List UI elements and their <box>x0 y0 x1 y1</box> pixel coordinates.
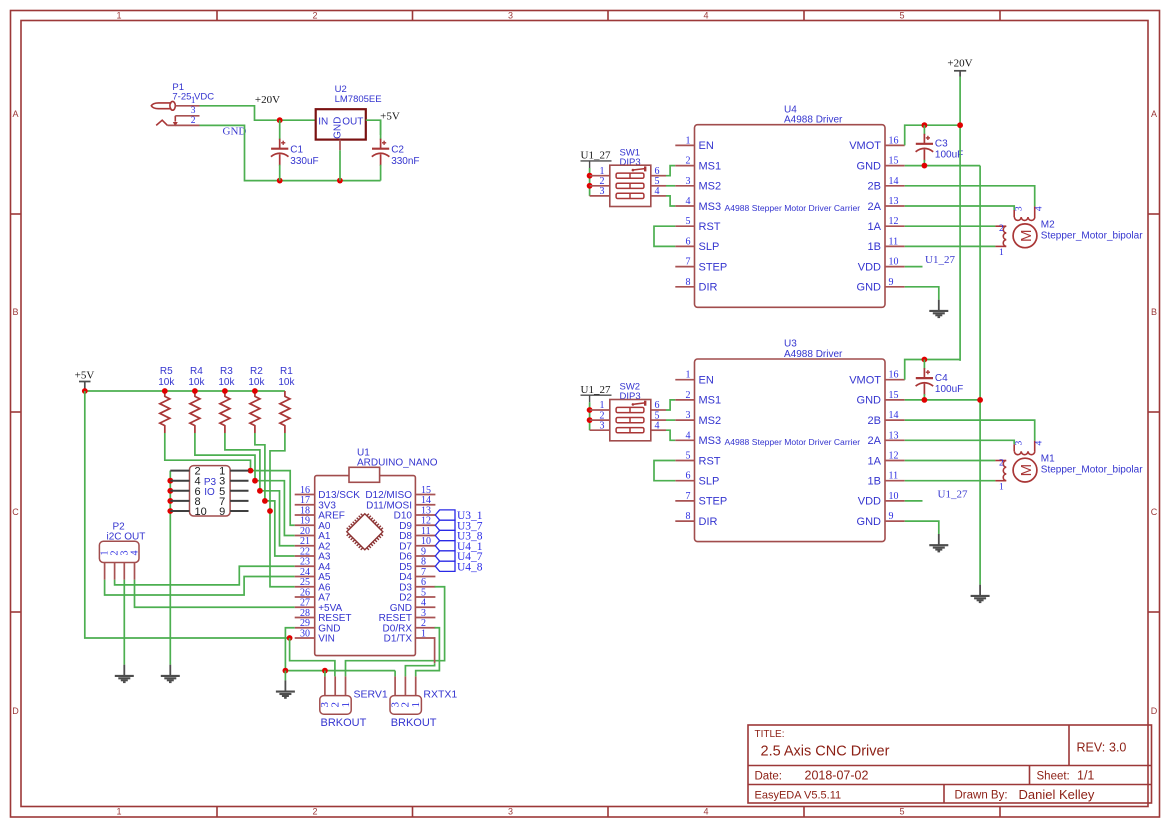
wire U1_27 to SW2 pins <box>589 402 591 430</box>
svg-text:R3: R3 <box>220 366 233 377</box>
svg-text:10k: 10k <box>188 377 205 388</box>
switch SW1 pin numbers <box>600 166 660 197</box>
svg-text:R4: R4 <box>190 366 203 377</box>
IC U3 labels <box>784 339 843 360</box>
wire SW1 pin6 to MS1 <box>666 166 675 176</box>
svg-text:3: 3 <box>600 186 605 197</box>
svg-text:U1_27: U1_27 <box>581 150 611 162</box>
motor M1 body circle <box>1013 458 1037 482</box>
connector P1 barrel jack symbol <box>151 101 175 125</box>
svg-text:GND: GND <box>857 282 882 294</box>
svg-text:OUT: OUT <box>342 116 363 127</box>
junction P3 pin8 <box>167 498 173 504</box>
svg-text:2: 2 <box>999 458 1004 468</box>
wire RXTX1 pin3 drop <box>394 671 396 677</box>
resistor R2 <box>250 391 260 433</box>
resistor R4 labels <box>188 366 205 388</box>
resistor R3 labels <box>218 366 235 388</box>
connector P1 labels <box>172 82 214 103</box>
svg-text:10: 10 <box>195 506 207 518</box>
connector RXTX1 BRKOUT label <box>391 717 437 729</box>
junction P3 pin6 <box>167 488 173 494</box>
IC U1 left pin names <box>318 490 360 644</box>
switch SW1 DIP3 box <box>610 165 651 206</box>
IC U3 left pin stubs <box>675 380 694 521</box>
svg-text:9: 9 <box>889 277 894 288</box>
wire P2 pin4 to +5VA <box>135 580 295 607</box>
svg-text:3: 3 <box>191 106 196 116</box>
ground at U3 GND9 <box>929 534 948 551</box>
junction GND15 at U3 <box>977 397 983 403</box>
wire SW2 pin4 to MS3 <box>666 430 675 440</box>
svg-text:1: 1 <box>686 370 691 381</box>
capacitor C1 labels <box>290 145 318 168</box>
svg-text:A4988 Stepper Motor Driver Car: A4988 Stepper Motor Driver Carrier <box>724 437 860 447</box>
svg-text:1B: 1B <box>868 476 881 488</box>
IC U4 left pin stubs <box>675 145 694 286</box>
svg-text:4: 4 <box>130 551 141 556</box>
svg-text:4: 4 <box>703 807 708 817</box>
svg-text:C: C <box>1151 507 1158 517</box>
ground below U1 <box>276 680 295 697</box>
wire GND15 vertical to bottom ground <box>979 166 981 585</box>
wire +5V down to VIN <box>85 391 290 638</box>
junction P3 pin1 <box>248 468 254 474</box>
wire U3 GND15 <box>905 399 980 401</box>
switch SW1 pin stubs left <box>590 176 610 196</box>
connector P2 pin numbers <box>100 551 141 556</box>
svg-text:4: 4 <box>655 186 660 197</box>
svg-text:MS2: MS2 <box>699 415 722 427</box>
svg-text:5: 5 <box>686 216 691 227</box>
regulator U2 pin names <box>318 116 363 139</box>
svg-text:1: 1 <box>116 807 121 817</box>
svg-text:10k: 10k <box>248 377 265 388</box>
svg-text:11: 11 <box>889 236 899 247</box>
svg-text:30: 30 <box>300 628 310 639</box>
motor M2 left coil <box>995 226 1006 246</box>
wire U2 OUT to C2 (+5V net) <box>366 120 381 135</box>
capacitor C3 labels <box>935 139 963 161</box>
IC U4 right pin stubs <box>885 145 905 286</box>
svg-text:12: 12 <box>889 451 899 462</box>
svg-text:U1_27: U1_27 <box>938 489 968 501</box>
svg-text:GND: GND <box>333 117 344 139</box>
connector P3 box <box>190 466 231 516</box>
svg-text:C4: C4 <box>935 373 948 384</box>
svg-text:1A: 1A <box>868 221 882 233</box>
IC U1 right pin names <box>365 490 412 644</box>
capacitor C3 <box>916 125 934 165</box>
junction SW2 pin1 <box>587 407 593 413</box>
IC U4 A4988 box <box>695 125 886 308</box>
junction P3 pin4 <box>167 478 173 484</box>
junction R2 at +5V rail <box>252 388 258 394</box>
wire U3 GND9 <box>905 521 939 534</box>
svg-text:1A: 1A <box>868 455 882 467</box>
switch SW2 elements <box>616 401 645 433</box>
connector P3 pin numbers <box>195 466 226 518</box>
svg-text:+20V: +20V <box>255 94 280 106</box>
IC U1 left pin stubs <box>295 495 315 639</box>
motor M1 labels <box>1041 454 1143 476</box>
regulator U2 labels <box>335 84 382 105</box>
svg-text:MS3: MS3 <box>699 435 722 447</box>
title block <box>748 725 1152 803</box>
svg-text:D1/TX: D1/TX <box>384 634 413 645</box>
junction C3 bottom <box>922 163 928 169</box>
svg-text:1: 1 <box>421 628 426 639</box>
svg-text:Stepper_Motor_bipolar: Stepper_Motor_bipolar <box>1041 465 1143 476</box>
junction VIN <box>287 635 293 641</box>
frame row letters left <box>12 109 19 716</box>
capacitor C2 <box>372 120 390 180</box>
svg-text:1: 1 <box>191 96 196 106</box>
title block text Drawn By <box>955 787 1095 802</box>
svg-text:1: 1 <box>116 11 121 21</box>
svg-text:GND: GND <box>857 395 882 407</box>
IC U1 left pin numbers <box>300 485 310 640</box>
junction P3 pin7 <box>262 498 268 504</box>
IC U1 labels <box>357 448 438 469</box>
svg-text:U1_27: U1_27 <box>581 384 611 396</box>
IC U3 carrier text <box>724 437 860 447</box>
wire SERV1 pin3 drop <box>324 671 326 677</box>
svg-text:5: 5 <box>686 451 691 462</box>
IC U3 A4988 box <box>695 359 886 542</box>
IC U3 right pin stubs <box>885 380 905 521</box>
wire U3 VDD stub <box>905 500 923 502</box>
svg-text:3: 3 <box>686 176 691 187</box>
svg-text:3.0: 3.0 <box>1109 741 1126 755</box>
svg-text:EN: EN <box>699 375 714 387</box>
junction SW1 pin1 <box>587 173 593 179</box>
wire D1/TX to RXTX1 pin2 <box>434 637 436 663</box>
junction at C1 top <box>277 117 283 123</box>
svg-text:11: 11 <box>889 471 899 482</box>
svg-text:16: 16 <box>889 135 899 146</box>
frame column numbers bottom <box>116 807 904 817</box>
wire P3 left pins to ground <box>169 471 171 665</box>
svg-text:3: 3 <box>508 807 513 817</box>
ground below P3 <box>161 665 180 682</box>
resistor R4 <box>190 391 200 433</box>
connector RXTX1 pin numbers <box>389 702 422 708</box>
svg-text:U1_27: U1_27 <box>925 254 955 266</box>
wire SW2 pin5 to MS2 <box>666 419 675 421</box>
junction C4 bottom <box>922 397 928 403</box>
svg-text:330nF: 330nF <box>391 156 419 167</box>
svg-text:13: 13 <box>889 430 899 441</box>
svg-text:8: 8 <box>686 511 691 522</box>
connector P1 pin 2 <box>168 116 200 126</box>
wire U4 1B to motor pin1 <box>905 245 996 247</box>
IC U1 ARDUINO_NANO box <box>315 476 416 656</box>
svg-text:7: 7 <box>686 257 691 268</box>
svg-text:100uF: 100uF <box>935 150 963 161</box>
switch SW2 DIP3 box <box>610 400 651 441</box>
IC U4 labels <box>784 104 843 125</box>
svg-text:3: 3 <box>686 410 691 421</box>
svg-text:A4988 Stepper Motor Driver Car: A4988 Stepper Motor Driver Carrier <box>724 203 860 213</box>
svg-text:R1: R1 <box>280 366 293 377</box>
svg-text:C: C <box>12 507 19 517</box>
wire U3 1A to motor pin2 <box>905 460 996 462</box>
wire P2 pin3 to ground <box>123 580 125 665</box>
svg-text:4: 4 <box>686 430 691 441</box>
wire R5 to P3 pin1 to A0 <box>165 433 251 471</box>
svg-text:3: 3 <box>508 11 513 21</box>
wire U3 VMOT riser <box>905 360 960 380</box>
capacitor C2 labels <box>391 145 419 168</box>
wire VIN to SERV1 pin2 <box>290 638 335 676</box>
net label U1_27 at U4 VDD <box>925 254 955 266</box>
junction C4 top <box>922 357 928 363</box>
junction SW1 pin2 <box>587 183 593 189</box>
svg-text:14: 14 <box>889 410 899 421</box>
wire R2 to P3 pin7 to A3 <box>255 433 265 501</box>
IC U1 right pin numbers <box>421 485 431 640</box>
net label GND at P1 <box>223 126 247 138</box>
frame row letters right <box>1151 109 1158 716</box>
svg-text:2: 2 <box>999 224 1004 234</box>
wire SW2 pin6 to MS1 <box>666 400 675 410</box>
svg-text:8: 8 <box>686 277 691 288</box>
motor M2 body circle <box>1013 224 1037 248</box>
svg-text:MS2: MS2 <box>699 181 722 193</box>
capacitor C1 <box>271 120 289 180</box>
connector P3 pin stubs left <box>170 471 189 511</box>
connector SERV1 box <box>320 696 351 715</box>
junction +20V at U4 VMOT <box>957 122 963 128</box>
resistor R5 <box>160 391 170 433</box>
svg-text:GND: GND <box>857 516 882 528</box>
svg-text:U4_8: U4_8 <box>457 561 483 573</box>
wire U4 VDD stub <box>905 266 923 268</box>
svg-text:DIR: DIR <box>699 516 718 528</box>
junction P3 pin3 <box>252 478 258 484</box>
wire U2 GND to rail <box>339 140 341 151</box>
junction U2 GND bottom rail <box>337 178 343 184</box>
motor M1 top coil <box>1014 441 1035 455</box>
IC U4 right pin numbers <box>889 135 899 287</box>
svg-text:R5: R5 <box>160 366 173 377</box>
motor M1 left coil <box>995 461 1006 481</box>
svg-text:+5V: +5V <box>75 370 95 382</box>
svg-text:RST: RST <box>699 221 721 233</box>
svg-text:12: 12 <box>889 216 899 227</box>
svg-text:LM7805EE: LM7805EE <box>335 94 382 105</box>
svg-text:10: 10 <box>889 257 899 268</box>
capacitor C4 <box>916 360 934 400</box>
wire U1 GND29 to ground rail <box>285 628 395 671</box>
svg-text:D: D <box>12 706 19 716</box>
frame column numbers top <box>116 11 904 21</box>
svg-text:2: 2 <box>312 807 317 817</box>
IC U4 right pin names <box>849 140 881 293</box>
wire U4 GND15 <box>905 165 980 167</box>
junction SERV1 pin3 <box>322 668 328 674</box>
resistor R1 labels <box>278 366 295 388</box>
resistor R1 <box>280 391 290 433</box>
svg-text:VDD: VDD <box>858 261 881 273</box>
svg-text:C2: C2 <box>391 145 404 156</box>
junction +5V flag <box>82 388 88 394</box>
svg-text:M2: M2 <box>1041 219 1055 230</box>
title block text REV <box>1077 741 1127 755</box>
svg-text:Stepper_Motor_bipolar: Stepper_Motor_bipolar <box>1041 230 1143 241</box>
regulator U2 LM7805 box <box>316 109 366 139</box>
svg-text:16: 16 <box>889 370 899 381</box>
svg-text:2A: 2A <box>868 201 882 213</box>
switch SW2 labels <box>620 382 641 403</box>
svg-text:M1: M1 <box>1041 454 1055 465</box>
motor M1 pin numbers <box>999 440 1044 492</box>
svg-text:4: 4 <box>1035 440 1045 445</box>
svg-text:10k: 10k <box>218 377 235 388</box>
svg-text:SERV1: SERV1 <box>354 688 388 700</box>
svg-text:3: 3 <box>1014 206 1024 211</box>
connector RXTX1 label <box>423 688 457 700</box>
junction SW2 pin2 <box>587 417 593 423</box>
svg-text:C1: C1 <box>290 145 303 156</box>
title block text EasyEDA version <box>755 790 842 802</box>
connector P2 pin stubs <box>105 563 135 580</box>
IC U4 left pin numbers <box>686 135 691 287</box>
capacitor C4 labels <box>935 373 963 395</box>
svg-text:5: 5 <box>899 807 904 817</box>
svg-text:Date:: Date: <box>755 771 783 783</box>
svg-text:RXTX1: RXTX1 <box>423 688 457 700</box>
svg-text:4: 4 <box>1035 206 1045 211</box>
wire R3 to P3 pin5 to A2 <box>225 433 260 491</box>
net label +5V at U2 OUT <box>380 110 400 122</box>
junction R4 at +5V rail <box>192 388 198 394</box>
svg-text:R2: R2 <box>250 366 263 377</box>
svg-text:VIN: VIN <box>318 634 335 645</box>
motor M2 top coil <box>1014 206 1035 220</box>
svg-text:REV:: REV: <box>1077 741 1106 755</box>
svg-text:6: 6 <box>686 236 691 247</box>
junction P3 pin9 <box>267 508 273 514</box>
connector P2 labels <box>107 521 146 542</box>
connector SERV1 pin numbers <box>319 702 352 708</box>
svg-text:VMOT: VMOT <box>849 140 881 152</box>
svg-text:VDD: VDD <box>858 496 881 508</box>
svg-text:3: 3 <box>1014 440 1024 445</box>
title block text Date <box>755 769 869 783</box>
svg-text:GND: GND <box>857 160 882 172</box>
wire R1 to P3 pin9 to A6 <box>270 433 285 511</box>
svg-text:GND: GND <box>223 126 247 138</box>
net flag labels <box>457 510 483 573</box>
svg-text:10: 10 <box>889 491 899 502</box>
junction C3 top <box>922 122 928 128</box>
svg-text:B: B <box>1151 307 1157 317</box>
svg-text:IO: IO <box>204 487 215 498</box>
net flag U1_27 at SW1 <box>581 150 612 168</box>
svg-text:1: 1 <box>999 248 1004 258</box>
title block text TITLE <box>755 729 890 760</box>
svg-text:14: 14 <box>889 176 899 187</box>
svg-text:TITLE:: TITLE: <box>755 729 785 740</box>
svg-text:A: A <box>12 109 18 119</box>
svg-text:1B: 1B <box>868 241 881 253</box>
wire P1 pin2 to ground rail <box>200 125 381 180</box>
wire U3 1B to motor pin1 <box>905 480 996 482</box>
junction R5 at +5V rail <box>162 388 168 394</box>
svg-text:EasyEDA V5.5.11: EasyEDA V5.5.11 <box>755 790 842 802</box>
junction P3 pin5 <box>257 488 263 494</box>
svg-text:DIR: DIR <box>699 282 718 294</box>
net label +20V <box>255 94 280 106</box>
motor M2 pin numbers <box>999 206 1044 258</box>
wire R4 to P3 pin3 to A1 <box>195 433 255 481</box>
switch SW1 pin stubs right <box>651 176 666 196</box>
svg-text:100uF: 100uF <box>935 384 963 395</box>
svg-text:VMOT: VMOT <box>849 375 881 387</box>
switch SW1 labels <box>620 147 641 168</box>
wire U4 2B to motor pin4 <box>905 186 1035 207</box>
svg-text:Daniel Kelley: Daniel Kelley <box>1019 787 1095 802</box>
wire U1_27 to SW1 pins <box>589 168 591 196</box>
svg-text:SLP: SLP <box>699 241 720 253</box>
svg-text:13: 13 <box>889 196 899 207</box>
svg-text:5: 5 <box>899 11 904 21</box>
switch SW2 pin stubs right <box>651 410 666 430</box>
svg-text:2: 2 <box>312 11 317 21</box>
IC U3 left pin names <box>699 375 728 528</box>
wire U3 RST-SLP loop <box>654 461 675 481</box>
svg-text:2A: 2A <box>868 435 882 447</box>
junction P3 pin10 <box>167 508 173 514</box>
svg-text:3: 3 <box>600 420 605 431</box>
svg-text:2B: 2B <box>868 415 881 427</box>
svg-text:MS1: MS1 <box>699 160 722 172</box>
ground at U4 GND9 <box>929 300 948 317</box>
svg-text:1: 1 <box>340 702 352 708</box>
svg-text:2: 2 <box>686 390 691 401</box>
svg-text:BRKOUT: BRKOUT <box>391 717 437 729</box>
svg-text:+20V: +20V <box>947 58 972 70</box>
connector P3 pin stubs right <box>230 471 248 511</box>
IC U3 right pin numbers <box>889 370 899 522</box>
ground at GND15 bottom <box>971 585 990 602</box>
svg-text:330uF: 330uF <box>290 156 318 167</box>
wire U3 2A to motor pin3 <box>905 440 1015 444</box>
connector RXTX1 pin stubs <box>395 676 416 695</box>
svg-text:2: 2 <box>686 156 691 167</box>
power flag +5V <box>75 370 95 391</box>
junction ground rail left <box>283 668 289 674</box>
IC U4 carrier text <box>724 203 860 213</box>
wire +5V rail to resistors <box>85 390 285 392</box>
svg-text:BRKOUT: BRKOUT <box>321 717 367 729</box>
svg-text:7: 7 <box>686 491 691 502</box>
wire ground rail to ground symbol <box>284 671 286 681</box>
svg-text:1: 1 <box>686 135 691 146</box>
svg-text:STEP: STEP <box>699 261 728 273</box>
switch SW1 elements <box>616 166 645 198</box>
switch SW2 pin numbers <box>600 400 660 431</box>
svg-text:10k: 10k <box>158 377 175 388</box>
connector SERV1 BRKOUT label <box>321 717 367 729</box>
svg-text:C3: C3 <box>935 139 948 150</box>
svg-text:B: B <box>12 307 18 317</box>
svg-text:STEP: STEP <box>699 496 728 508</box>
connector SERV1 label <box>354 688 388 700</box>
wire D3 to SERV1 pin1 <box>346 587 445 677</box>
